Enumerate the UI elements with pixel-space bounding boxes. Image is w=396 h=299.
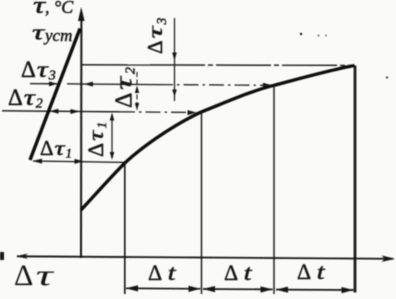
svg-text:τ, °С: τ, °С <box>33 0 74 19</box>
